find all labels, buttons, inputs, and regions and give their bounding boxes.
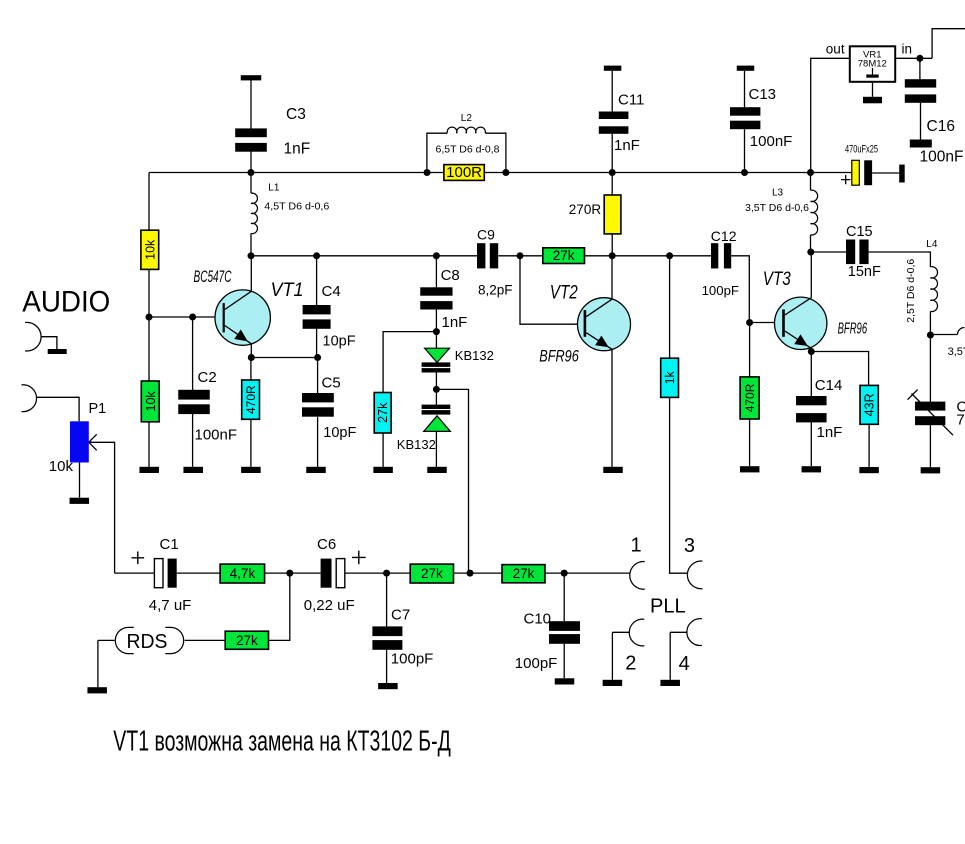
wire C1 to R 4,7k — [177, 572, 220, 574]
supply terminal above C3 — [241, 75, 262, 80]
resistor 27k (VT2 feedback) — [543, 248, 585, 264]
node between varicaps — [433, 386, 440, 393]
svg-text:C8: C8 — [441, 267, 460, 284]
svg-text:100nF: 100nF — [195, 427, 238, 444]
svg-text:78M12: 78M12 — [858, 59, 887, 70]
svg-text:10k: 10k — [144, 391, 158, 412]
resistor 27k cyan (varicap bias) — [374, 393, 391, 434]
wire C9 node to VT2 base — [520, 256, 584, 324]
svg-text:C4: C4 — [322, 283, 341, 300]
svg-text:100pF: 100pF — [391, 650, 434, 667]
node VT1 base bias — [146, 314, 153, 321]
capacitor C5 — [302, 393, 334, 402]
node C1-C6 row / RDS — [286, 570, 293, 577]
svg-text:C7: C7 — [391, 607, 410, 624]
PLL pin 1 contact — [630, 562, 645, 590]
svg-text:PLL: PLL — [650, 595, 686, 617]
wire C5 to ground — [317, 417, 319, 467]
wire to VT3 base — [749, 322, 782, 324]
ground C5 — [306, 467, 326, 473]
svg-text:AUDIO: AUDIO — [22, 285, 110, 318]
ground RDS jack — [87, 687, 107, 693]
node C9 / VT2 base — [517, 252, 524, 259]
capacitor C1 electrolytic — [154, 559, 163, 588]
wire R 470R green to ground — [749, 419, 751, 466]
svg-text:4,5T D6 d-0,6: 4,5T D6 d-0,6 — [264, 201, 329, 213]
svg-text:100pF: 100pF — [515, 655, 558, 672]
ground C10 — [555, 678, 575, 684]
svg-text:in: in — [902, 42, 913, 57]
svg-text:6,5T D6 d-0,8: 6,5T D6 d-0,8 — [436, 143, 500, 155]
node C5 top — [314, 354, 321, 361]
VR1 internal ground tab — [872, 68, 874, 75]
resistor 270R — [604, 195, 621, 234]
voltage regulator VR1 78M12 — [850, 46, 895, 82]
svg-text:100nF: 100nF — [750, 133, 793, 150]
node C3 / rail — [247, 169, 254, 176]
wire emitter node to C14 — [810, 352, 812, 397]
node VR1 out / rail — [807, 169, 814, 176]
node L1 / collector line — [248, 252, 255, 259]
wire C16 to ground — [920, 103, 922, 140]
inductor L1 — [251, 193, 257, 234]
svg-text:4,7k: 4,7k — [230, 566, 256, 581]
ground C2 — [183, 467, 203, 473]
resistor 1k — [661, 358, 679, 397]
svg-text:1nF: 1nF — [614, 137, 640, 154]
node C4 top — [313, 252, 320, 259]
wire VT2 emitter to ground — [611, 349, 613, 467]
wire varicap VD2 to ground — [435, 432, 437, 468]
svg-text:BC547C: BC547C — [194, 267, 232, 286]
node R270R / VT2 collector — [609, 252, 616, 259]
node C8 / varicaps — [433, 328, 440, 335]
wire C7 to ground — [386, 650, 388, 683]
capacitor C4 — [303, 305, 331, 314]
resistor 27k (RDS) — [225, 631, 268, 649]
wire VT1 base line — [149, 316, 223, 318]
PLL pin 2 contact — [629, 619, 644, 646]
inductor L4 — [930, 267, 937, 312]
svg-text:3,5T D6: 3,5T D6 — [948, 346, 965, 358]
capacitor C14 — [796, 396, 827, 405]
wire C2 to ground — [192, 414, 194, 467]
wire C13 top terminal — [744, 71, 746, 107]
C18 polarity plus — [841, 175, 850, 184]
svg-text:270R: 270R — [569, 202, 602, 217]
wire VT1 emitter — [250, 344, 252, 358]
transistor VT2 BFR96 — [578, 298, 631, 351]
svg-text:P1: P1 — [89, 401, 107, 417]
inductor L2 — [427, 133, 447, 172]
wire C15 to L4 — [869, 252, 931, 267]
wire PLL pin 2 — [612, 631, 629, 633]
wire emitter node to R 470R cyan — [250, 358, 252, 381]
svg-text:10k: 10k — [49, 458, 74, 475]
svg-text:1nF: 1nF — [442, 314, 468, 331]
varicap diode VD1 KB132 — [425, 348, 450, 362]
node VT3 base — [746, 319, 753, 326]
wire rail to R 10k yellow — [148, 173, 150, 231]
svg-text:1nF: 1nF — [817, 424, 843, 441]
svg-text:1: 1 — [631, 535, 642, 557]
node L3 / VT3 collector / C15 — [807, 249, 814, 256]
svg-text:C3: C3 — [286, 106, 306, 123]
C1 polarity plus — [132, 552, 145, 565]
ground C14 — [802, 466, 822, 472]
svg-text:2,5T D6 d-0,6: 2,5T D6 d-0,6 — [905, 259, 917, 323]
wire mid node to varicap VD2 — [435, 389, 437, 405]
wire R 43R to ground — [868, 424, 870, 467]
svg-text:VT3: VT3 — [763, 269, 791, 290]
wire PLL pin 2 to ground — [611, 632, 613, 680]
wire R 270R to collector node — [611, 234, 613, 256]
ground R470R cyan — [241, 467, 261, 473]
wire rail to L1 — [250, 173, 252, 194]
node varicap feed — [467, 570, 474, 577]
svg-text:4,7 uF: 4,7 uF — [149, 597, 192, 614]
svg-text:100pF: 100pF — [702, 283, 739, 298]
node L2 right — [502, 169, 509, 176]
svg-text:1k: 1k — [663, 370, 677, 384]
capacitor C10 — [549, 621, 580, 631]
wire R 27k to C12 — [585, 255, 712, 257]
wire PLL pin 4 — [670, 631, 687, 633]
svg-text:C6: C6 — [317, 536, 336, 553]
wire C4 to emitter line — [316, 329, 318, 358]
inductor L3 — [811, 190, 818, 235]
capacitor C15 — [846, 240, 855, 265]
ground varicap VD2 — [427, 467, 447, 473]
svg-text:470uFx25: 470uFx25 — [845, 144, 878, 156]
capacitor C2 — [178, 390, 210, 400]
ground R43R — [859, 467, 879, 473]
capacitor C12 — [711, 243, 718, 268]
svg-text:C9: C9 — [477, 227, 495, 243]
svg-text:BFR96: BFR96 — [838, 321, 868, 338]
svg-text:L1: L1 — [268, 183, 280, 194]
wire VT3 emitter stub — [810, 348, 812, 351]
wire varicap node to R 27k cyan — [383, 332, 436, 393]
wire to C1 — [115, 572, 155, 574]
wire L1 to collector node — [250, 234, 252, 256]
wire audio jack sleeve to ground — [41, 337, 57, 349]
ground R27k cyan — [373, 467, 393, 473]
node C10 / PLL — [561, 570, 568, 577]
wire in node to C16 — [919, 58, 921, 79]
wire C13 to rail — [744, 129, 746, 172]
svg-text:VT2: VT2 — [550, 283, 578, 304]
svg-text:470R: 470R — [743, 383, 757, 412]
wire VT2 collector — [611, 256, 613, 299]
svg-text:C5: C5 — [322, 375, 341, 392]
svg-text:15nF: 15nF — [848, 264, 881, 280]
node C8 top — [433, 252, 440, 259]
capacitor C11 — [599, 112, 629, 120]
wire L4 to antenna node — [929, 311, 931, 335]
wire RDS down to ground — [97, 640, 99, 687]
wire C11 top terminal — [611, 71, 613, 112]
wire varicap VD1 to mid node — [435, 372, 437, 389]
wire VT1 collector — [250, 256, 252, 291]
svg-text:C1: C1 — [160, 536, 179, 553]
inductor L5 start arc (clipped at edge) — [958, 328, 965, 335]
svg-text:C2: C2 — [198, 369, 217, 386]
wire collector line to C8 — [435, 256, 437, 287]
svg-text:7-25: 7-25 — [956, 412, 965, 429]
wire rail to R 270R — [611, 173, 613, 196]
resistor 10k green (VT1 lower bias) — [141, 381, 159, 422]
ground trimmer C17 — [921, 467, 941, 473]
wire base node to R 10k green — [148, 317, 150, 381]
wire R 470R cyan to ground — [250, 419, 252, 467]
resistor 10k yellow (VT1 upper bias) — [141, 230, 159, 269]
capacitor C6 electrolytic — [321, 559, 332, 588]
supply terminal above C13 — [737, 66, 755, 71]
wire VT1 emitter line — [251, 357, 317, 359]
wire L3 to VT3 collector node — [810, 235, 812, 252]
svg-text:27k: 27k — [236, 633, 258, 648]
wire P1 to ground — [79, 462, 81, 497]
svg-text:10pF: 10pF — [323, 334, 356, 350]
svg-text:C16: C16 — [927, 118, 955, 135]
audio jack lower contact — [22, 385, 37, 412]
wire C9 to R 27k green — [498, 255, 542, 257]
node VT3 emitter — [808, 348, 815, 355]
PLL pin 3 contact — [687, 561, 702, 589]
resistor 27k (audio) — [410, 564, 453, 583]
svg-text:C11: C11 — [618, 92, 644, 109]
svg-text:out: out — [826, 42, 845, 57]
svg-text:100nF: 100nF — [920, 149, 964, 166]
C6 polarity plus — [352, 551, 366, 565]
svg-text:1nF: 1nF — [284, 141, 311, 158]
wire C8 to varicap node — [435, 309, 437, 331]
svg-text:3: 3 — [684, 535, 695, 557]
svg-text:KB132: KB132 — [397, 437, 436, 452]
node C11 / rail — [609, 169, 616, 176]
ground audio jack — [48, 349, 67, 354]
svg-text:C15: C15 — [846, 224, 873, 240]
P1 wiper arrowhead — [89, 434, 97, 450]
wire PLL pin 4 to ground — [669, 632, 671, 680]
wire emitter line to C5 — [317, 358, 319, 394]
svg-text:4: 4 — [679, 653, 690, 675]
transistor VT1 BC547C — [215, 290, 270, 345]
ground R10k green — [139, 467, 159, 473]
wire C6 to R 27k — [345, 572, 410, 574]
node VT1 emitter — [248, 354, 255, 361]
resistor 27k (to PLL) — [502, 565, 545, 583]
wire C11 to rail — [611, 134, 613, 173]
wire collector line to C4 — [316, 256, 318, 305]
wire C12 to VT3 base corner — [731, 256, 749, 323]
wire VT3 base node to R 470R green — [749, 323, 751, 377]
svg-text:10k: 10k — [143, 239, 157, 260]
wire node to C15 — [811, 251, 847, 253]
wire supply rail — [149, 172, 852, 174]
wire rail to L3 — [810, 173, 812, 191]
wire VR1 out to rail — [811, 58, 850, 172]
wire supply input from edge — [932, 29, 965, 59]
supply terminal above C11 — [604, 66, 622, 71]
ground VT2 emitter — [603, 467, 623, 473]
svg-text:L4: L4 — [926, 239, 938, 250]
capacitor C7 — [372, 626, 402, 636]
ground VR1 — [863, 97, 882, 104]
node C2 top — [189, 314, 196, 321]
resistor 43R — [860, 385, 878, 424]
svg-text:C12: C12 — [711, 228, 737, 244]
wire node to varicap VD1 — [435, 332, 437, 348]
wire R 1k down to PLL pin 3 — [670, 397, 688, 573]
trimmer capacitor C17 — [915, 402, 945, 411]
wire P1 wiper to C1 — [89, 442, 115, 573]
svg-text:470R: 470R — [244, 385, 258, 414]
audio jack upper contact — [25, 322, 41, 351]
potentiometer P1 — [70, 421, 89, 462]
wire VR1 in — [895, 57, 932, 59]
capacitor C13 — [730, 107, 760, 116]
svg-text:2: 2 — [625, 652, 636, 674]
RDS jack — [115, 627, 133, 653]
svg-text:10pF: 10pF — [323, 425, 356, 441]
capacitor C16 — [905, 79, 936, 87]
capacitor C18 electrolytic 470uFx25 — [852, 160, 860, 185]
svg-text:27k: 27k — [513, 566, 535, 581]
ground R470R green — [740, 466, 760, 472]
svg-text:43R: 43R — [863, 393, 877, 416]
transistor VT3 BFR96 — [775, 297, 827, 349]
svg-text:RDS: RDS — [127, 630, 168, 653]
capacitor C9 — [477, 243, 485, 268]
svg-text:VT1 возможна замена на КТ3102: VT1 возможна замена на КТ3102 Б-Д — [113, 726, 451, 758]
node R1k top — [666, 252, 673, 259]
node L2 left — [424, 169, 431, 176]
wire RDS to R 27k — [185, 639, 225, 641]
wire trimmer C17 to ground — [929, 425, 931, 467]
wire R 10k green to ground — [148, 422, 150, 467]
ground C16 — [910, 140, 932, 148]
wire node to trimmer C17 — [929, 335, 931, 402]
svg-text:3,5T D6 d-0,6: 3,5T D6 d-0,6 — [745, 202, 809, 214]
svg-text:8,2pF: 8,2pF — [478, 283, 513, 298]
svg-text:27k: 27k — [421, 566, 443, 581]
svg-text:L2: L2 — [461, 113, 473, 124]
ground C7 — [378, 683, 398, 689]
wire line to R 1k — [669, 256, 671, 358]
svg-text:27k: 27k — [553, 248, 575, 263]
wire C3 to rail — [250, 152, 252, 173]
wire varicap mid node down to audio row — [436, 389, 468, 573]
svg-text:27k: 27k — [376, 402, 390, 423]
wire R 27k to R 27k second — [454, 572, 503, 574]
wire to PLL pin 1 — [545, 572, 630, 574]
wire C14 to ground — [810, 422, 812, 466]
wire audio jack tip to P1 — [36, 397, 79, 421]
wire collector line left part — [251, 255, 477, 257]
resistor 100R — [444, 165, 484, 181]
capacitor C3 — [235, 128, 267, 137]
wire node to C7 — [386, 573, 388, 626]
node VR1 in — [916, 55, 923, 62]
wire R 4,7k to C6 — [265, 572, 321, 574]
wire VT3 collector — [810, 252, 812, 298]
svg-text:0,22 uF: 0,22 uF — [304, 597, 355, 614]
varicap diode VD2 KB132 — [422, 405, 451, 409]
wire antenna node to L5 — [930, 334, 957, 336]
resistor 470R green (VT3 base) — [740, 377, 759, 419]
svg-text:VT1: VT1 — [271, 280, 304, 301]
wire base node to C2 — [192, 317, 194, 390]
PLL pin 4 contact — [687, 619, 702, 646]
wire C10 to ground — [563, 644, 565, 679]
svg-text:C14: C14 — [815, 377, 843, 394]
ground PLL pin 2 — [603, 680, 623, 686]
resistor 4,7k — [220, 564, 265, 583]
wire R 27k cyan to ground — [382, 433, 384, 467]
ground PLL pin 4 — [660, 680, 680, 686]
wire RDS jack to wire — [98, 639, 115, 641]
wire VR1 tab to ground — [872, 82, 874, 97]
ground P1 — [70, 498, 90, 504]
wire top terminal to C3 — [250, 80, 252, 129]
wire VT3 emitter to R 43R — [811, 352, 868, 386]
node L4 / antenna — [927, 332, 934, 339]
wire electrolytic C18 plate link — [872, 172, 899, 174]
svg-text:L3: L3 — [772, 188, 784, 199]
svg-text:KB132: KB132 — [455, 348, 494, 363]
node C6 / C7 — [383, 570, 390, 577]
wire R 27k up to node — [269, 573, 290, 640]
resistor 470R cyan (VT1 emitter) — [242, 380, 260, 419]
capacitor C8 — [420, 287, 452, 295]
node C13 / rail — [741, 169, 748, 176]
svg-text:100R: 100R — [446, 164, 482, 181]
wire node to C10 — [563, 573, 565, 621]
svg-text:C13: C13 — [749, 86, 777, 103]
svg-text:BFR96: BFR96 — [539, 347, 579, 365]
svg-text:C10: C10 — [524, 611, 552, 628]
wire R 10k yellow to base node — [148, 269, 150, 317]
